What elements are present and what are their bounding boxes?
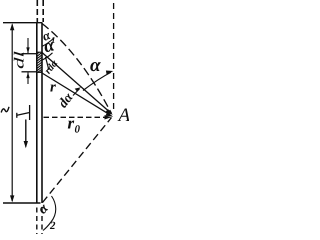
top end tick of wire xyxy=(3,22,43,24)
vertical dashed line through A xyxy=(113,3,115,110)
label a1 xyxy=(43,33,54,43)
arc angle a at A (with arrow) xyxy=(83,71,113,91)
line r lower (element bottom to A) xyxy=(42,73,113,117)
current direction arrow xyxy=(24,120,28,149)
wire (rod) xyxy=(37,23,42,203)
dimension ticks dl xyxy=(22,54,37,72)
wire dashed continuation top xyxy=(37,0,43,22)
label rda (rotated) xyxy=(46,60,58,74)
bottom end tick of wire xyxy=(3,202,41,204)
arc angle a at element xyxy=(41,53,53,61)
point A label xyxy=(118,109,131,122)
label I (current, rotated) xyxy=(17,105,30,120)
dimension line l xyxy=(10,23,14,202)
arc angle a2 at wire bottom xyxy=(43,196,56,231)
label a2 xyxy=(40,204,55,229)
segment r.da near element xyxy=(46,57,49,70)
dashed line to A from wire top (angle a1 side) xyxy=(42,24,112,114)
label r0 xyxy=(68,121,80,133)
label l (rotated) xyxy=(1,107,9,113)
arc angle a1 at wire top xyxy=(42,38,54,47)
line r upper (element top to A) xyxy=(42,53,113,115)
label da with leader arrow xyxy=(60,87,81,107)
element dl (hatched segment of wire) xyxy=(36,52,42,72)
dashed distance r0 xyxy=(44,115,112,119)
label a at element xyxy=(45,42,54,52)
label r xyxy=(50,84,56,91)
dashed line to A from wire bottom (angle a2 side) xyxy=(43,118,112,203)
label dl (rotated) xyxy=(14,52,24,69)
label a near arc at A xyxy=(90,62,101,71)
dimension arrows dl xyxy=(26,38,29,84)
wire dashed continuation bottom xyxy=(37,208,42,235)
